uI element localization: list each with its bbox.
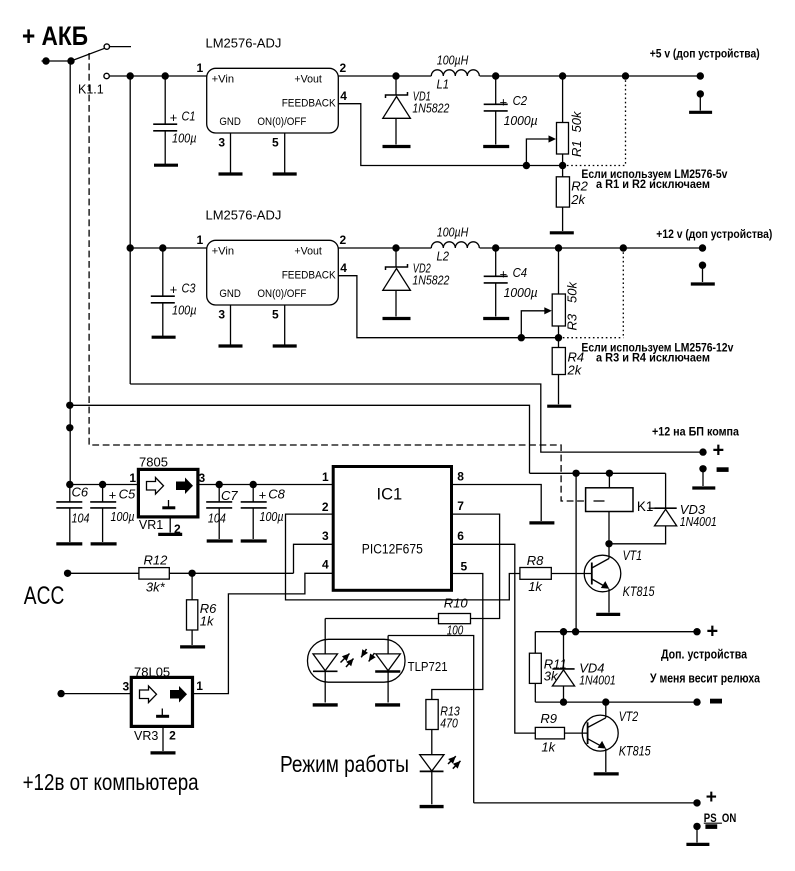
wire +5V output rail U1 pin2 to terminal <box>338 75 431 77</box>
svg-text:FEEDBACK: FEEDBACK <box>282 98 337 110</box>
svg-text:Режим работы: Режим работы <box>280 751 409 777</box>
svg-text:1N5822: 1N5822 <box>412 272 450 287</box>
resistor R9 body <box>535 727 564 739</box>
svg-text:3: 3 <box>218 308 225 322</box>
svg-text:K1.1: K1.1 <box>78 83 104 97</box>
svg-text:+Vout: +Vout <box>294 74 322 86</box>
svg-text:5: 5 <box>461 559 468 573</box>
diode VD3 symbol <box>665 473 667 508</box>
svg-text:TLP721: TLP721 <box>408 659 448 674</box>
junction relay rail x576 <box>572 470 579 477</box>
svg-text:+: + <box>170 110 178 125</box>
wire VT1 collector <box>608 544 610 559</box>
svg-text:+: + <box>170 282 178 297</box>
capacitor C3 plates <box>162 248 164 296</box>
wire relay rail to dop rail <box>575 473 577 631</box>
ground C2 <box>483 145 509 148</box>
capacitor C6 plates <box>69 485 71 502</box>
svg-text:KT815: KT815 <box>619 743 651 758</box>
svg-text:а R1 и R2 исключаем: а R1 и R2 исключаем <box>596 177 710 191</box>
opto coupling arrows <box>341 654 350 663</box>
svg-text:R1: R1 <box>569 140 584 157</box>
ground VD2 <box>383 317 411 320</box>
svg-text:LM2576-ADJ: LM2576-ADJ <box>206 208 282 223</box>
ground R2 <box>550 231 574 234</box>
wire R1 top <box>562 76 564 122</box>
svg-text:7805: 7805 <box>139 454 168 469</box>
VR1 input arrow outline <box>147 478 164 495</box>
wire R3 bottom <box>558 326 560 348</box>
diode VD1 symbol <box>395 76 397 95</box>
wire R1 bottom <box>562 154 564 177</box>
wire battery rail down left side <box>69 61 71 485</box>
junction rail1-VD1 <box>392 72 399 79</box>
wire input branch x130 down <box>129 76 131 384</box>
svg-text:104: 104 <box>72 511 90 526</box>
wire R13 to LED <box>431 730 433 755</box>
junction rail2-left branch <box>127 244 134 251</box>
wire dop minus rail <box>535 701 697 703</box>
optocoupler U3 TLP721 outline <box>308 639 406 682</box>
VR3 output arrow solid <box>170 686 187 703</box>
resistor R11 body <box>529 653 541 683</box>
opto left LED symbol <box>324 619 326 654</box>
wire K1 coil bottom <box>608 512 610 544</box>
wire battery to switch <box>42 60 72 62</box>
inductor L1 coil <box>431 70 479 76</box>
svg-text:IC1: IC1 <box>377 485 403 503</box>
wire U2 pin4 feedback <box>338 276 558 338</box>
svg-text:C6: C6 <box>72 484 89 499</box>
potentiometer R1 wiper arrow <box>526 139 550 166</box>
junction feedback2-wiper <box>518 334 525 341</box>
svg-text:104: 104 <box>208 511 226 526</box>
svg-text:4: 4 <box>340 89 347 103</box>
svg-text:1: 1 <box>196 679 203 693</box>
ground VR3 pin2 <box>151 751 176 754</box>
svg-text:ON(0)/OFF: ON(0)/OFF <box>257 288 306 300</box>
svg-text:1000µ: 1000µ <box>504 113 538 128</box>
svg-text:+: + <box>707 620 719 642</box>
resistor R12 body <box>139 568 169 580</box>
wire relay +12 rail <box>530 472 666 474</box>
svg-text:3: 3 <box>123 680 130 694</box>
VR1 output arrow solid <box>176 478 193 495</box>
svg-text:+5 v (доп устройства): +5 v (доп устройства) <box>650 46 760 60</box>
wire U1 pin 3 to ground <box>230 133 232 173</box>
regulator U2 LM2576-ADJ body <box>207 240 339 305</box>
svg-text:100µH: 100µH <box>437 53 469 68</box>
svg-text:VT2: VT2 <box>619 709 639 724</box>
svg-text:470: 470 <box>440 715 458 730</box>
svg-text:Доп. устройства: Доп. устройства <box>661 647 748 662</box>
svg-text:2: 2 <box>169 729 176 743</box>
wire R9 to VT2 base <box>565 732 588 734</box>
junction dop rail x576 <box>572 628 579 635</box>
wire IC1 pin2 to R8 line <box>286 514 520 600</box>
svg-text:R3: R3 <box>565 313 580 330</box>
svg-text:PIC12F675: PIC12F675 <box>362 541 423 556</box>
svg-text:L1: L1 <box>437 77 450 92</box>
svg-text:2: 2 <box>340 61 347 75</box>
svg-text:100µ: 100µ <box>172 303 197 318</box>
svg-text:C2: C2 <box>513 93 528 108</box>
ground BP kompa minus <box>692 486 715 489</box>
wire switch upper contact stub <box>109 46 131 48</box>
junction rail1-R1 <box>559 72 566 79</box>
svg-text:1N4001: 1N4001 <box>680 514 717 529</box>
node ACC input terminal <box>64 570 71 577</box>
minus sign BP kompa <box>717 467 729 472</box>
svg-text:VR3: VR3 <box>134 729 158 743</box>
ground of +5V output terminal <box>689 111 712 114</box>
svg-text:У меня весит релюха: У меня весит релюха <box>650 671 761 686</box>
svg-text:C4: C4 <box>513 265 528 280</box>
wire R8 to VT1 base <box>551 573 592 575</box>
junction R12-R6 <box>188 570 195 577</box>
ground R4 <box>547 405 571 408</box>
junction rail2-R3 <box>555 244 562 251</box>
wire R11 top feed <box>534 632 536 654</box>
svg-text:+: + <box>499 95 507 110</box>
node +12 BP kompa terminal dot <box>699 448 706 455</box>
svg-text:GND: GND <box>219 288 241 300</box>
wire IC1 pin4 to 78L05 output <box>193 573 334 693</box>
junction switch common <box>67 57 74 64</box>
wire +12V output rail U2 pin2 to terminal <box>338 247 431 249</box>
svg-text:VR1: VR1 <box>139 518 163 532</box>
svg-text:1k: 1k <box>541 739 556 754</box>
ground opto left <box>313 703 338 706</box>
ground VT2 emitter <box>594 772 619 775</box>
dotted option box for R1 R2 <box>625 76 627 166</box>
svg-text:VT1: VT1 <box>623 548 643 563</box>
svg-text:+: + <box>259 488 267 503</box>
capacitor C2 plates <box>495 76 497 104</box>
capacitor C8 plates <box>252 485 254 502</box>
capacitor C5 plates <box>102 485 104 502</box>
wire R6 top <box>191 573 193 600</box>
svg-text:GND: GND <box>219 116 241 128</box>
svg-text:+: + <box>499 267 507 282</box>
wire R6 to ground <box>191 630 193 645</box>
led HL1 symbol <box>420 755 444 771</box>
ground C7 <box>207 539 233 542</box>
wire +5V rail from switch to U1 pin1 <box>109 75 206 77</box>
node PSON terminal <box>693 799 700 806</box>
svg-text:+Vin: +Vin <box>212 246 235 258</box>
dotted option box for R3 R4 <box>622 248 624 338</box>
wire IC1 pin3 to ACC divider <box>294 544 334 573</box>
svg-text:R10: R10 <box>444 596 469 611</box>
wire U1 pin4 feedback <box>338 104 562 166</box>
ground C5 <box>91 542 117 545</box>
junction rail-C8 <box>250 481 257 488</box>
svg-text:1N4001: 1N4001 <box>579 672 616 687</box>
ground U2 pin 5 <box>273 344 297 347</box>
svg-text:50k: 50k <box>569 110 584 132</box>
VR1 internal ground mark <box>168 500 170 507</box>
svg-text:+: + <box>713 440 725 462</box>
svg-text:5: 5 <box>272 136 279 150</box>
terminal minus of +12V output <box>699 262 706 269</box>
svg-text:100µ: 100µ <box>260 509 284 524</box>
svg-text:6: 6 <box>457 529 464 543</box>
wire R10 to opto left LED <box>325 618 438 620</box>
svg-text:+ АКБ: + АКБ <box>22 21 88 51</box>
svg-text:50k: 50k <box>565 281 580 303</box>
minus sign PSON <box>705 824 717 829</box>
minus sign dop ustroystva <box>710 699 722 704</box>
terminal PSON ground dot <box>693 823 700 830</box>
wire IC1 pin8 to ground <box>452 485 542 522</box>
resistor R13 body <box>426 700 438 730</box>
wire 5V logic rail right of VR1 <box>196 484 333 486</box>
svg-text:ON(0)/OFF: ON(0)/OFF <box>257 116 306 128</box>
svg-text:1: 1 <box>197 61 204 75</box>
svg-text:+: + <box>706 787 717 808</box>
ground C3 <box>152 336 176 339</box>
dashed mechanical link K1.1 to relay K1 <box>89 53 607 501</box>
diode VD2 symbol <box>395 248 397 267</box>
ground VT1 emitter <box>596 613 620 616</box>
ground U2 pin 3 <box>219 344 243 347</box>
junction VT1 collector relay <box>605 540 612 547</box>
junction feedback1-wiper <box>523 162 530 169</box>
junction rail-C7 <box>216 481 223 488</box>
wire U2 pin 5 to ground <box>284 305 286 345</box>
junction relay rail to K1 coil <box>606 470 613 477</box>
underline PS_ON <box>704 822 722 824</box>
ground C4 <box>483 317 509 320</box>
svg-text:3: 3 <box>218 136 225 150</box>
switch K1.1 lower contact <box>104 73 109 78</box>
capacitor C1 plates <box>164 76 166 124</box>
junction rail2-dotted <box>620 244 627 251</box>
junction feedback1-R2 <box>559 162 566 169</box>
ground C1 <box>154 164 178 167</box>
svg-text:4: 4 <box>322 557 329 571</box>
svg-text:K1: K1 <box>637 499 654 514</box>
wire U2 pin 3 to ground <box>230 305 232 345</box>
svg-text:2k: 2k <box>570 192 586 207</box>
node dop plus terminal <box>693 628 700 635</box>
regulator VR1 7805 body <box>138 469 198 517</box>
svg-text:R12: R12 <box>144 553 169 568</box>
junction rail-C5 <box>99 481 106 488</box>
ic IC1 body <box>333 467 451 591</box>
svg-text:R9: R9 <box>540 711 557 726</box>
ground of +12V output terminal <box>691 282 715 285</box>
junction dop minus VD4 <box>560 698 567 705</box>
wire IC1 pin5 to R13 <box>432 574 483 700</box>
svg-text:+: + <box>109 488 117 503</box>
svg-text:+12 v (доп устройства): +12 v (доп устройства) <box>656 227 772 241</box>
wire +12 BP kompa feed <box>130 384 703 452</box>
svg-text:1N5822: 1N5822 <box>412 100 450 115</box>
svg-text:C7: C7 <box>221 488 238 503</box>
led HL1 emission arrows <box>448 756 456 764</box>
junction dop minus VT2 collector <box>602 698 609 705</box>
junction rail1-left branch <box>127 72 134 79</box>
resistor R10 body <box>439 614 471 624</box>
wire 5V logic rail left of VR1 <box>70 484 138 486</box>
wire VT2 emitter to ground <box>605 749 607 772</box>
svg-text:1k: 1k <box>528 579 543 594</box>
relay K1 actuation dash <box>594 500 605 502</box>
svg-text:+Vout: +Vout <box>294 246 322 258</box>
svg-text:LM2576-ADJ: LM2576-ADJ <box>206 36 282 51</box>
svg-text:1: 1 <box>129 471 136 485</box>
switch K1.1 upper contact <box>104 44 109 49</box>
inductor L2 coil <box>431 242 479 248</box>
terminal minus BP kompa <box>699 465 706 472</box>
wire opto right to PSON line <box>388 636 474 803</box>
svg-text:+12в от компьютера: +12в от компьютера <box>23 769 199 795</box>
opto right LED symbol <box>387 636 389 654</box>
svg-text:+Vin: +Vin <box>212 74 235 86</box>
svg-text:C3: C3 <box>182 281 197 296</box>
wire R11 bottom <box>534 683 536 702</box>
ground VR1 pin2 <box>158 533 182 536</box>
wire K1 tick to VD3 <box>649 507 655 509</box>
svg-text:8: 8 <box>457 469 464 483</box>
regulator VR3 78L05 body <box>131 677 192 726</box>
junction rail1-C2 <box>492 72 499 79</box>
junction rail2-C4 <box>492 244 499 251</box>
resistor R8 body <box>520 568 551 580</box>
svg-text:2k: 2k <box>567 363 583 378</box>
VR3 internal ground mark <box>161 709 163 716</box>
resistor R2 body <box>556 177 569 207</box>
junction rail1-dotted <box>622 72 629 79</box>
potentiometer R1 body <box>557 123 569 155</box>
junction battery rail y405 <box>66 402 73 409</box>
ground PSON <box>686 843 709 846</box>
wire dop plus rail <box>535 631 697 633</box>
svg-text:1: 1 <box>322 470 329 484</box>
junction battery rail y428 <box>66 424 73 431</box>
terminal minus of +5V output <box>697 90 704 97</box>
ground U1 pin 5 <box>273 172 297 175</box>
node +12v from computer terminal <box>57 690 64 697</box>
transistor VT2 body <box>582 715 618 751</box>
svg-text:100µH: 100µH <box>437 225 469 240</box>
wire computer 12v input <box>61 693 131 695</box>
svg-text:1k: 1k <box>200 614 215 629</box>
svg-text:3k*: 3k* <box>146 580 166 595</box>
ground C6 <box>56 542 82 545</box>
ground U1 pin 3 <box>219 172 243 175</box>
wire VR3 pin2 to ground <box>162 726 164 751</box>
resistor R6 body <box>187 600 198 630</box>
svg-text:FEEDBACK: FEEDBACK <box>282 270 337 282</box>
wire battery to relay rail <box>70 405 530 473</box>
ground VD1 <box>383 145 411 148</box>
node +5V output terminal dot <box>697 72 704 79</box>
svg-text:1: 1 <box>197 233 204 247</box>
svg-text:3k: 3k <box>544 669 559 684</box>
ground IC1 pin8 <box>529 521 554 524</box>
svg-text:а R3 и R4 исключаем: а R3 и R4 исключаем <box>596 351 710 365</box>
transistor VT1 body <box>584 555 621 592</box>
junction dop rail VD4 <box>560 628 567 635</box>
wire VT1 emitter to ground <box>608 589 610 613</box>
wire VR1 pin2 to ground <box>169 517 171 532</box>
svg-text:C5: C5 <box>119 486 136 501</box>
capacitor C7 plates <box>218 485 220 502</box>
potentiometer R3 wiper arrow <box>521 311 546 338</box>
wire IC1 pin6 to R9 <box>452 544 536 733</box>
wire K1 coil top <box>608 473 610 488</box>
svg-text:C8: C8 <box>268 486 285 501</box>
svg-text:2: 2 <box>340 233 347 247</box>
junction rail2-C3 <box>159 244 166 251</box>
wire ACC to R12 <box>68 572 139 574</box>
wire R2 to ground <box>562 207 564 231</box>
svg-text:1000µ: 1000µ <box>504 285 538 300</box>
svg-text:4: 4 <box>340 261 347 275</box>
svg-text:+12 на БП компа: +12 на БП компа <box>652 424 739 438</box>
svg-text:5: 5 <box>272 308 279 322</box>
diode VD4 symbol <box>563 632 565 669</box>
node dop minus terminal <box>693 698 700 705</box>
svg-text:C1: C1 <box>182 109 196 124</box>
wire R12 to pin3 riser <box>169 572 293 574</box>
ground C8 <box>241 539 267 542</box>
junction feedback2-R4 <box>555 334 562 341</box>
svg-text:3: 3 <box>322 529 329 543</box>
wire +12V rail input to U2 pin1 <box>130 247 207 249</box>
svg-text:ACC: ACC <box>24 582 65 610</box>
svg-text:KT815: KT815 <box>623 584 655 599</box>
wire R3 top <box>558 248 560 294</box>
resistor R4 body <box>552 348 565 375</box>
ground R6 <box>180 645 205 648</box>
capacitor C4 plates <box>495 248 497 276</box>
wire U1 pin 5 to ground <box>284 133 286 173</box>
wire R4 to ground <box>558 375 560 405</box>
regulator U1 LM2576-ADJ body <box>207 68 339 133</box>
svg-text:R8: R8 <box>527 553 544 568</box>
junction battery rail to C6 rail <box>66 481 73 488</box>
node +12V output terminal dot <box>699 244 706 251</box>
wire IC1 pin7 to R10 <box>452 514 500 618</box>
svg-text:L2: L2 <box>437 249 450 264</box>
junction rail2-VD2 <box>392 244 399 251</box>
svg-text:2: 2 <box>322 500 329 514</box>
relay K1 coil body <box>586 488 633 512</box>
ground led HL1 <box>420 805 444 808</box>
svg-text:7: 7 <box>457 499 464 513</box>
ground opto right <box>375 703 400 706</box>
svg-text:100µ: 100µ <box>172 131 197 146</box>
svg-text:3: 3 <box>199 471 206 485</box>
VR3 input arrow outline <box>140 686 157 703</box>
svg-text:100µ: 100µ <box>111 509 135 524</box>
junction battery terminal <box>42 57 49 64</box>
potentiometer R3 body <box>552 294 565 326</box>
switch K1.1 blade <box>71 48 105 61</box>
wire VT2 collector <box>605 702 607 718</box>
wire PSON line to terminal <box>474 802 697 804</box>
junction rail1-C1 <box>162 72 169 79</box>
